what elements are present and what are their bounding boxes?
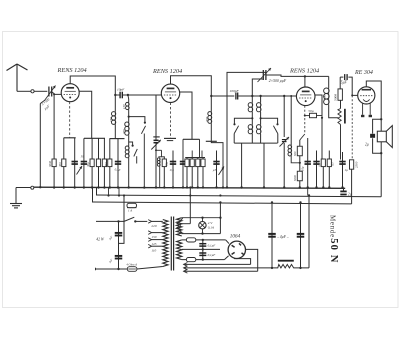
terminal bar stage1-a — [64, 137, 76, 139]
switch mains — [124, 217, 134, 221]
wire to V3 grid — [238, 95, 296, 97]
wire/capacitor row2 b — [172, 151, 174, 188]
capacitor 100pF — [236, 93, 238, 100]
wire trimmer to bus — [155, 144, 157, 188]
wire trimmer3 to bus — [283, 143, 285, 188]
wire lamp top — [178, 218, 221, 224]
wire stage2 chain to bus — [211, 141, 223, 187]
transformer core — [170, 217, 172, 271]
wire/resistor row1 e — [91, 138, 93, 187]
svg-text:RENS 1204: RENS 1204 — [152, 68, 182, 75]
fuse box — [127, 203, 137, 207]
node line2 a — [107, 194, 109, 196]
antenna — [7, 64, 28, 91]
wire V3 cathode lower dashed — [304, 118, 306, 134]
wire cap to V4 grid — [348, 77, 357, 95]
line2 heater rail — [97, 195, 382, 197]
node osc bus — [226, 186, 228, 188]
svg-text:150: 150 — [109, 117, 113, 122]
wire V1 anode up/right — [70, 76, 115, 112]
transformer sec heater winding — [177, 240, 182, 260]
speaker cap loop — [373, 119, 382, 133]
wire/resistor row2 g — [202, 158, 204, 188]
coil osc a upper — [248, 103, 253, 108]
terminal bar stage2-b — [183, 138, 200, 140]
node line2 b — [118, 194, 120, 196]
bus line — [34, 187, 345, 188]
wire chain2 to bus — [128, 158, 130, 188]
node line2 c — [189, 194, 191, 196]
speaker box — [377, 131, 386, 142]
node wiper join — [321, 117, 323, 119]
svg-text:42 W: 42 W — [96, 238, 105, 242]
node lamp b — [201, 232, 203, 234]
wire/resistor row3 stack — [299, 140, 301, 188]
node osc a — [251, 95, 253, 97]
capacitor heater 2 — [199, 253, 206, 255]
svg-text:1064: 1064 — [230, 232, 241, 239]
wire ground stub — [15, 188, 17, 204]
trimmer arrow row1 — [77, 166, 83, 175]
wire osc b to switch — [261, 118, 278, 123]
wire 2500 to line3 — [351, 169, 353, 204]
wire mains bottom — [96, 268, 128, 270]
wire/resistor row1 b — [63, 138, 65, 188]
tube V4 RE 304 — [358, 87, 375, 104]
svg-text:5000: 5000 — [334, 94, 338, 101]
node line2 e — [308, 194, 310, 196]
node heater cap b — [202, 248, 204, 250]
node heater cap a — [202, 239, 204, 241]
wire V3 cathode dashed — [304, 106, 306, 116]
wire stub a — [108, 188, 110, 196]
node osc a mid — [251, 117, 253, 119]
wire osc a to switch — [234, 118, 252, 123]
svg-text:50µ: 50µ — [308, 109, 313, 113]
coil row2 small — [157, 158, 160, 161]
variable capacitor C-ant — [45, 86, 56, 101]
node osc b — [259, 95, 261, 97]
wire/capacitor row2 c — [182, 151, 184, 188]
fuse mains — [127, 267, 137, 272]
wire switch left down — [233, 134, 235, 144]
trimmer stage2 — [151, 140, 161, 150]
wire/resistor row3 d — [322, 159, 324, 187]
svg-text:1µ: 1µ — [345, 168, 349, 172]
svg-text:600: 600 — [205, 116, 209, 121]
node osc b mid — [260, 117, 262, 119]
svg-text:30µ: 30µ — [166, 161, 169, 166]
wire mains vertical — [123, 196, 125, 222]
svg-text:µF: µF — [213, 168, 217, 172]
wire anode line to coil600 — [328, 76, 330, 88]
coil osc b lower — [256, 125, 261, 130]
coil 150 stage1 anode — [111, 112, 115, 116]
svg-text:5µF: 5µF — [341, 81, 348, 85]
terminal bar stage1-c — [110, 138, 125, 140]
svg-text:10μ: 10μ — [301, 166, 305, 171]
wire heater mid — [182, 248, 220, 250]
tube V3 RENS 1204 — [296, 87, 315, 106]
wire V2 grid left — [156, 95, 161, 140]
svg-text:RENS 1204: RENS 1204 — [289, 68, 319, 75]
svg-text:50 N: 50 N — [328, 238, 339, 263]
wire/capacitor row2 h — [216, 151, 218, 188]
wire heater tap drop — [189, 188, 191, 224]
wire tap 220 — [152, 220, 163, 222]
wire/resistor row2 d — [186, 158, 188, 188]
winding tap arrow a — [177, 221, 181, 225]
wire stage2 out — [211, 95, 234, 97]
wire connector to C-ant — [34, 90, 47, 92]
wire filter cap2 — [300, 203, 302, 268]
wire osc a to bus — [241, 143, 243, 187]
switch wave 1 — [141, 122, 146, 189]
resistor 2500 — [350, 160, 354, 169]
svg-text:500: 500 — [293, 151, 297, 156]
svg-text:125: 125 — [151, 242, 156, 246]
node V4 grid — [351, 94, 353, 96]
resistor cathode V3 — [310, 113, 317, 117]
wire mains line — [96, 220, 124, 222]
svg-text:RE 304: RE 304 — [354, 69, 373, 76]
trimmer stage3 — [280, 137, 290, 147]
cluster rail row2 — [185, 157, 205, 159]
coil stage2 anode — [208, 112, 212, 116]
coil 300 chain2 — [125, 122, 129, 126]
capacitor 2uF bus end — [340, 190, 346, 192]
svg-text:100pF: 100pF — [230, 89, 240, 93]
capacitor speaker 2uF — [370, 134, 375, 138]
antenna connector — [31, 90, 34, 93]
wire speaker down — [380, 153, 382, 197]
terminal bar stage2-a — [164, 137, 176, 139]
wire node down — [127, 95, 130, 102]
wire osc lower plate — [252, 79, 263, 96]
wire HV line3 — [184, 269, 188, 273]
node lamp c — [219, 217, 221, 219]
coil 600 output — [324, 88, 330, 94]
svg-text:RENS 1204: RENS 1204 — [57, 67, 87, 74]
node stage1 coupling — [114, 94, 116, 96]
line3 rail — [93, 202, 352, 204]
wire caps mid tap — [119, 221, 125, 243]
resistor heater bottom — [186, 258, 195, 262]
wire fuse to transformer — [137, 267, 163, 270]
wire/capacitor row3 f — [342, 152, 344, 188]
wire/resistor row2 f — [197, 158, 199, 188]
transformer primary winding — [163, 220, 168, 267]
capacitor filter 1 — [268, 234, 276, 237]
capacitor filter 2 — [297, 234, 305, 237]
wire C-ant trimmer tail down — [40, 100, 44, 103]
wire to tap connector — [135, 220, 147, 222]
svg-text:150: 150 — [122, 104, 126, 109]
switch osc right — [273, 123, 278, 133]
wire heater top diag — [226, 240, 229, 244]
node V2 grid feed — [127, 94, 129, 96]
wire/resistor row3 e — [328, 151, 330, 188]
resistor row2 a — [163, 157, 165, 188]
wire/resistor row1 h — [109, 139, 111, 188]
wire V4 grid down dashed — [351, 95, 353, 159]
wire heater bottom diag — [224, 256, 228, 260]
wire heater top — [182, 239, 226, 241]
tube 1064 — [228, 241, 245, 258]
capacitor 5uF — [345, 74, 347, 80]
terminal bar stage2 grid — [153, 136, 159, 138]
wire cathode to R — [305, 115, 310, 117]
switch osc left — [233, 123, 238, 133]
wire coil300 down — [128, 135, 130, 146]
variable capacitor osc — [258, 68, 272, 82]
node line3 b — [271, 201, 273, 203]
svg-text:– 4µF –: – 4µF – — [276, 235, 289, 239]
wire lamp rail vertical — [219, 203, 221, 234]
wire 5000 top — [339, 77, 341, 89]
capacitor 10pF — [115, 94, 119, 96]
node filter a — [271, 267, 273, 269]
wire/resistor row2 e — [191, 158, 193, 188]
wire osc b to bus — [263, 143, 265, 187]
wire/resistor row1 g — [103, 138, 105, 187]
wire coil stage2 down — [210, 123, 212, 141]
wire osc chain b — [260, 96, 262, 103]
wire coil600 to wiper — [329, 105, 338, 118]
wire/capacitor row1 d — [83, 138, 85, 187]
wire/capacitor row1 i — [117, 139, 119, 188]
wire row3 b line2 — [307, 188, 309, 196]
wire osc b mid — [260, 112, 262, 125]
transformer sec lamp winding — [177, 218, 182, 236]
wire osc chain a — [251, 96, 253, 103]
wire R to node — [317, 116, 323, 118]
wire speaker main — [380, 119, 382, 131]
svg-text:Mende: Mende — [328, 215, 336, 238]
coil chain2 third — [125, 146, 129, 150]
wire lamp stubs — [202, 218, 204, 222]
node line3 a — [219, 201, 221, 203]
svg-text:300: 300 — [122, 129, 126, 134]
wire lamp bottom — [178, 228, 221, 234]
node filter b — [299, 267, 301, 269]
svg-text:5000: 5000 — [48, 160, 52, 166]
wire node to V2 grid — [128, 94, 161, 96]
wire switch right down — [277, 134, 279, 144]
terminal bar osc — [234, 142, 277, 144]
wire stub line3 — [92, 188, 94, 203]
ground — [10, 204, 22, 208]
wire V2 screen right — [180, 92, 192, 139]
wire osc cap to anode line — [266, 75, 329, 76]
svg-text:5000: 5000 — [293, 175, 297, 181]
node mains a — [117, 220, 119, 222]
node speaker top — [380, 118, 382, 120]
wire top osc line — [227, 72, 266, 187]
winding tap arrow b — [177, 226, 181, 230]
wire V2 anode up/right — [171, 76, 212, 112]
wire to switch1 — [129, 117, 145, 122]
wire heater caps chain — [202, 240, 204, 260]
wire caps chain — [118, 221, 120, 269]
svg-text:1 A: 1 A — [128, 209, 132, 213]
bus connector — [31, 186, 34, 189]
wire/resistor row1 a — [53, 159, 55, 188]
wire C to node — [123, 94, 128, 96]
transformer primary taps — [148, 231, 151, 235]
capacitor heater 1 — [199, 244, 206, 246]
choke core bar — [278, 260, 294, 262]
wire 5uF line — [340, 76, 343, 78]
node speaker bottom — [380, 152, 382, 154]
wire between coils — [128, 110, 130, 122]
capacitor mains 2 — [115, 256, 123, 259]
wire/capacitor row3 b — [307, 138, 309, 188]
svg-text:600: 600 — [322, 95, 326, 101]
wire/capacitor row1 c — [74, 138, 76, 188]
wire HV line2 — [184, 266, 188, 270]
svg-text:2×500 µµF: 2×500 µµF — [269, 79, 287, 83]
terminal V4 leg1 — [361, 115, 364, 117]
svg-text:2µ: 2µ — [365, 143, 369, 147]
wire C-ant to V1 grid — [52, 92, 62, 95]
coil osc a lower — [248, 125, 253, 130]
wire heater bottom — [182, 259, 225, 261]
node heater cap c — [202, 258, 204, 260]
wire pot to row — [340, 125, 342, 160]
terminal V4 leg2 — [369, 115, 372, 117]
svg-text:150: 150 — [151, 235, 156, 239]
capacitor mains 1 — [115, 233, 123, 236]
terminal bar stage1-b — [84, 137, 105, 139]
wire V3 anode — [304, 76, 306, 87]
svg-text:300: 300 — [104, 162, 108, 167]
resistor 5000 — [338, 89, 342, 100]
node mains b — [117, 268, 119, 270]
resistor heater top — [186, 238, 195, 242]
wire V1 cathode down dashed — [69, 102, 71, 138]
wire V2 cathode dashed — [170, 103, 172, 138]
wire osc b bottom — [260, 134, 262, 143]
node wave switch 1 — [128, 116, 130, 118]
wire V3 screen right — [315, 95, 322, 159]
svg-text:110: 110 — [151, 248, 156, 252]
wire osc a mid — [251, 112, 253, 125]
node line3 c — [299, 201, 301, 203]
choke zigzag — [271, 264, 309, 268]
svg-text:10pF: 10pF — [117, 88, 125, 92]
node lamp a — [201, 217, 203, 219]
tube V1 RENS 1204 — [61, 84, 79, 102]
wire/resistor row1 f — [98, 138, 100, 187]
wire antenna to connector — [17, 90, 31, 92]
svg-text:4 Ohm A: 4 Ohm A — [126, 262, 137, 266]
coil 150 chain2 — [126, 102, 130, 106]
wire coil to bar — [114, 124, 116, 138]
wire line2 drop — [308, 196, 310, 268]
wire stage2 parallel pair feed — [156, 149, 162, 151]
wire osc a bottom — [251, 134, 253, 143]
wire V4 legs — [362, 103, 364, 114]
svg-text:30µ: 30µ — [86, 162, 90, 167]
trimmer arrow row2 — [219, 167, 225, 176]
potentiometer plate — [344, 109, 346, 124]
wire V1 screen right — [79, 91, 92, 138]
wire coil row2 down — [159, 166, 161, 187]
svg-text:2500: 2500 — [355, 161, 359, 168]
svg-text:300: 300 — [58, 162, 62, 167]
node line2 d — [219, 194, 221, 196]
wire bus left — [16, 187, 31, 189]
dial lamp — [199, 222, 206, 229]
wire stub b — [118, 188, 120, 196]
wire/capacitor row3 c — [316, 151, 318, 188]
node stage2 out — [210, 95, 212, 97]
wire V1 grid branch down — [53, 94, 55, 159]
wire stage3 trimmer chain — [283, 96, 285, 137]
tube V2 RENS 1204 — [161, 84, 179, 102]
wire filter cap1 — [271, 203, 273, 268]
switch wave 2 — [129, 142, 138, 164]
terminal bar stage2-c — [206, 140, 217, 142]
coil chain3 — [290, 96, 292, 145]
wire HV line1 — [184, 263, 188, 267]
node V3 anode junction — [304, 75, 306, 77]
wire pot top — [340, 100, 342, 108]
potentiometer zigzag — [338, 109, 341, 125]
tap connector 220 — [148, 220, 151, 224]
svg-text:220: 220 — [151, 224, 157, 228]
wire V4 anode — [366, 81, 381, 119]
fuse line under — [127, 207, 137, 209]
coil osc b upper — [256, 103, 261, 108]
wire stub line2 — [96, 188, 98, 196]
speaker horn — [386, 126, 392, 148]
